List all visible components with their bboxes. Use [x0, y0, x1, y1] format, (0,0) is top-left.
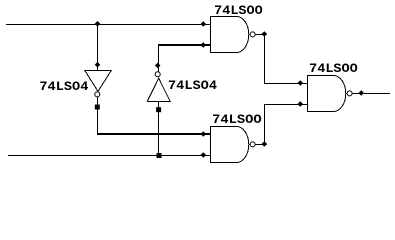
pin square U1 output: [95, 105, 100, 110]
svg-text:74LSO4: 74LSO4: [168, 78, 217, 93]
wire A drop to inverter U1: [97, 24, 98, 70]
wire U3 output down: [264, 34, 265, 84]
wire U2 to top gate horizontal: [158, 44, 211, 46]
wire U1 output down: [97, 97, 98, 134]
pin square U2 input: [156, 107, 161, 112]
node A junction dot: [95, 21, 101, 27]
nand gate U5 74LS00 (right): [298, 75, 365, 112]
wire U4 to U5 input 2 horizontal: [264, 104, 308, 105]
svg-text:74LSOO: 74LSOO: [212, 112, 262, 127]
wire B up to inverter U2: [158, 101, 159, 156]
inverter U2 74LS04 (pointing up): [147, 78, 170, 101]
svg-text:74LSO4: 74LSO4: [39, 79, 88, 94]
inverter U1 74LS04 (pointing down): [85, 71, 111, 92]
bubble U1 output: [95, 92, 100, 97]
svg-text:74LSOO: 74LSOO: [214, 3, 263, 18]
wire U2 output up: [158, 44, 159, 72]
wire input A horizontal: [6, 24, 211, 25]
wire U5 output horizontal: [364, 93, 390, 94]
wire input B horizontal: [8, 155, 211, 156]
wire U3 to U5 input 1 horizontal: [264, 83, 308, 84]
nand gate U3 74LS00 (top): [201, 16, 268, 53]
pin dot U1 input: [95, 62, 101, 68]
wire U4 output up: [264, 104, 265, 146]
wire U1 to bottom gate horizontal: [97, 133, 211, 135]
node B junction square: [157, 153, 162, 158]
nand gate U4 74LS00 (bottom): [201, 126, 268, 163]
svg-text:74LSOO: 74LSOO: [309, 61, 358, 76]
pin dot U2 output: [155, 63, 161, 69]
bubble U2 output: [155, 72, 160, 77]
